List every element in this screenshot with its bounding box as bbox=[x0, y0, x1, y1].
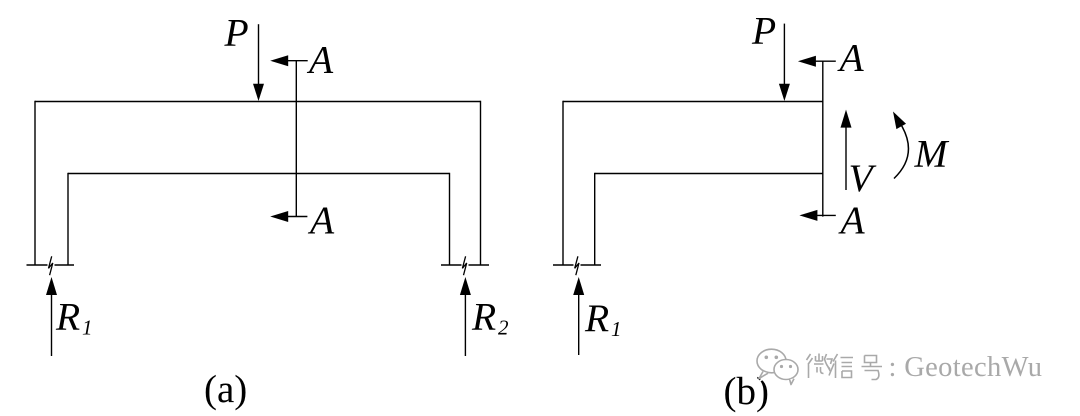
svg-text:M: M bbox=[914, 132, 950, 176]
figure (a) break symbol right bbox=[462, 256, 466, 275]
wechat icon: large bubble bbox=[757, 349, 786, 378]
figure (b) M arc arrowhead bbox=[893, 112, 906, 130]
figure (b) P arrowhead bbox=[779, 84, 790, 101]
svg-text:P: P bbox=[751, 9, 776, 53]
figure (a) load P arrow line bbox=[258, 24, 260, 86]
figure (b) bottom A arrowhead bbox=[799, 210, 817, 221]
svg-text:(a): (a) bbox=[204, 368, 247, 411]
figure (b) R1 reaction arrow line bbox=[578, 293, 580, 355]
svg-text:A: A bbox=[838, 198, 866, 242]
figure (b) beam bottom chord bbox=[595, 173, 823, 175]
figure (b) top A arrowhead bbox=[798, 56, 816, 67]
svg-text:R: R bbox=[471, 295, 496, 339]
svg-text:: GeotechWu: : GeotechWu bbox=[889, 352, 1043, 383]
figure (a) top A arrowhead bbox=[270, 55, 288, 66]
svg-text:A: A bbox=[306, 38, 334, 82]
figure (a) right inner column edge bbox=[449, 173, 451, 265]
figure (b) cut section line A-A bbox=[822, 61, 824, 217]
svg-text:R: R bbox=[55, 295, 80, 339]
svg-text:2: 2 bbox=[498, 316, 509, 340]
figure (a) P arrowhead bbox=[253, 84, 264, 101]
figure (a) section line A-A bbox=[295, 61, 297, 217]
figure (b) break symbol bbox=[575, 256, 579, 275]
figure (b) left outer column edge bbox=[562, 101, 564, 265]
figure (b) top A arrow line bbox=[812, 60, 836, 62]
watermark group (gray with white emboss) bbox=[757, 349, 1044, 386]
figure (a) right outer column edge bbox=[480, 101, 482, 265]
figure (a) top A arrow line bbox=[286, 60, 308, 62]
svg-text:A: A bbox=[837, 36, 865, 80]
figure (a) beam bottom chord bbox=[68, 173, 450, 175]
figure (a) left inner column edge bbox=[67, 173, 69, 265]
figure (a) beam top chord bbox=[35, 101, 481, 103]
watermark character 号 bbox=[862, 356, 883, 380]
figure (b) beam top chord bbox=[563, 101, 823, 103]
figure (a) bottom A arrow line bbox=[286, 216, 307, 218]
figure (b) bottom A arrow line bbox=[814, 214, 836, 216]
watermark character 信 bbox=[833, 354, 853, 378]
figure (a) R1 arrowhead bbox=[46, 277, 57, 295]
figure (a) R2 reaction arrow line bbox=[464, 293, 466, 356]
svg-text:P: P bbox=[224, 11, 249, 55]
figure (b) moment M arc bbox=[894, 126, 908, 179]
svg-text:A: A bbox=[307, 198, 335, 242]
figure (a) break symbol left bbox=[49, 256, 53, 275]
wechat icon: small bubble bbox=[774, 360, 798, 385]
figure (b) shear V arrow line bbox=[845, 125, 847, 190]
svg-text:R: R bbox=[584, 296, 609, 340]
figure (a) bottom A arrowhead bbox=[270, 211, 288, 222]
wechat icon eyes bbox=[765, 356, 793, 369]
figure (a) R1 reaction arrow line bbox=[51, 293, 53, 356]
figure (a) right support base line bbox=[441, 264, 489, 266]
svg-text:V: V bbox=[849, 156, 877, 200]
figure (a) left outer column edge bbox=[34, 101, 36, 265]
figure (b) left inner column edge bbox=[594, 173, 596, 265]
white emboss layer (offset copy, drawn first beneath) bbox=[759, 351, 1044, 386]
figure (b) left support base line bbox=[553, 264, 601, 266]
figure (b) V arrowhead bbox=[841, 110, 852, 128]
svg-text:1: 1 bbox=[82, 316, 93, 340]
figure (a) R2 arrowhead bbox=[460, 277, 471, 295]
figure (b) load P arrow line bbox=[783, 24, 785, 86]
watermark character 微 bbox=[807, 354, 835, 379]
figure (a) left support base line bbox=[27, 264, 75, 266]
svg-text:1: 1 bbox=[611, 317, 622, 341]
figure (b) R1 arrowhead bbox=[573, 277, 584, 295]
